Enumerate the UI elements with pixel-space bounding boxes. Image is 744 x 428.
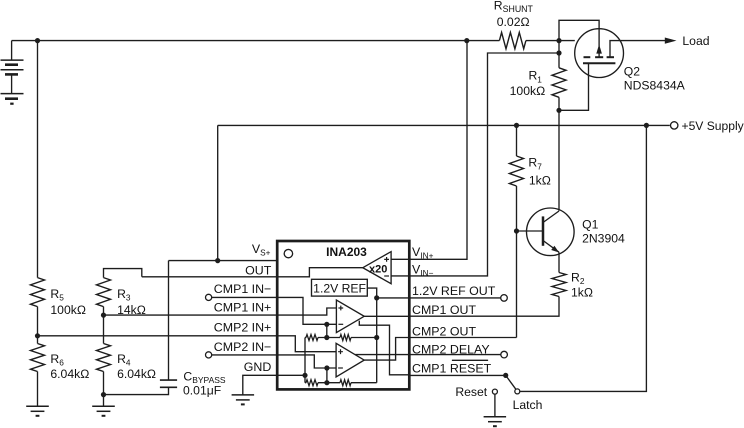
svg-text:CMP2 IN−: CMP2 IN− xyxy=(214,340,272,354)
transistor Q1 emitter xyxy=(543,241,559,253)
ground GND pin xyxy=(232,394,255,396)
wire latch to +5V xyxy=(520,125,647,391)
wire 1.2V REF OUT pin xyxy=(377,297,501,299)
node CMP1 RESET junction xyxy=(503,373,508,378)
svg-text:6.04kΩ: 6.04kΩ xyxy=(50,367,89,381)
wire R7 top lead xyxy=(516,125,518,156)
comparator U1A minus xyxy=(338,323,343,325)
comparator U1B minus xyxy=(338,367,343,369)
node row1 right junction xyxy=(374,335,379,340)
svg-text:RSHUNT: RSHUNT xyxy=(494,0,534,14)
resistor R4 6.04k xyxy=(97,344,111,372)
svg-text:14kΩ: 14kΩ xyxy=(117,303,146,317)
svg-text:2N3904: 2N3904 xyxy=(582,232,625,246)
wire CBYPASS top leg xyxy=(168,261,170,381)
svg-text:6.04kΩ: 6.04kΩ xyxy=(117,367,156,381)
transistor Q1 base bar xyxy=(542,216,545,245)
svg-text:CMP2 IN+: CMP2 IN+ xyxy=(214,321,272,335)
resistor R5 100k xyxy=(31,278,45,307)
wire VIN+ sense xyxy=(409,41,467,260)
resistor R1 100k xyxy=(552,68,566,98)
svg-text:VIN−: VIN− xyxy=(412,262,434,278)
capacitor CBYPASS xyxy=(160,379,177,381)
comparator U1A plus xyxy=(338,306,343,311)
block 1.2V REF xyxy=(312,279,368,296)
battery V1 supply xyxy=(11,41,13,61)
svg-text:Latch: Latch xyxy=(513,398,543,412)
wire Q1 base lead xyxy=(517,230,544,232)
wire R2 bottom to CMP1 OUT xyxy=(409,297,559,317)
wire CMP2 IN+ pin xyxy=(38,335,278,337)
svg-text:NDS8434A: NDS8434A xyxy=(624,79,686,93)
op-amp U1 INA203 body xyxy=(277,241,409,389)
svg-text:Q1: Q1 xyxy=(582,218,598,232)
node R7 top junction xyxy=(514,123,519,128)
transistor Q2 source arrow xyxy=(596,44,602,53)
node R4 ground junction xyxy=(101,392,106,397)
ground R6 xyxy=(26,405,49,407)
node R3/R4 junction xyxy=(101,313,106,318)
wire row2 to CMP2 minus xyxy=(326,368,328,383)
node latch branch junction xyxy=(644,123,649,128)
wire top supply rail xyxy=(12,40,500,42)
node row2 mid junction xyxy=(324,380,329,385)
pin1 marker circle xyxy=(284,249,292,257)
svg-text:100kΩ: 100kΩ xyxy=(50,303,86,317)
terminal latch circle xyxy=(515,389,520,394)
resistor R6 6.04k xyxy=(31,344,45,372)
ground reset xyxy=(484,416,507,418)
node VIN- branch junction xyxy=(556,50,561,55)
wire Q2 gate lead xyxy=(559,63,589,110)
node GND tie junction xyxy=(302,373,307,378)
svg-text:1kΩ: 1kΩ xyxy=(529,174,551,188)
svg-text:+5V Supply: +5V Supply xyxy=(682,119,744,133)
wire R7 bottom lead xyxy=(516,186,518,338)
terminal CMP2 DELAY circle xyxy=(501,351,508,358)
terminal CMP1 IN- circle xyxy=(206,294,212,300)
svg-text:R6: R6 xyxy=(50,352,64,368)
node R5/R6 junction xyxy=(35,333,40,338)
wire R1 top xyxy=(558,41,560,68)
svg-text:1kΩ: 1kΩ xyxy=(571,286,593,300)
svg-text:INA203: INA203 xyxy=(326,245,367,259)
transistor Q2 body circle xyxy=(575,29,624,78)
wire Q2 source jog xyxy=(559,20,599,46)
node battery/R5 junction xyxy=(35,38,40,43)
switch lever xyxy=(506,375,516,389)
ground R4 xyxy=(92,405,115,407)
node CMP2 minus junction xyxy=(324,365,329,370)
resistor hysteresis 2a xyxy=(306,380,318,386)
wire CMP1 IN- route xyxy=(277,297,336,324)
node REF OUT junction xyxy=(374,295,379,300)
resistor hysteresis 1a xyxy=(306,335,318,341)
svg-text:R4: R4 xyxy=(117,352,131,368)
wire reset to ground xyxy=(494,394,496,417)
overline RESET xyxy=(452,359,488,361)
amp x20 minus xyxy=(384,275,389,277)
transistor Q2 channel dashes xyxy=(584,56,591,58)
resistor R3 14k xyxy=(97,278,111,307)
comparator U1B plus xyxy=(338,349,343,354)
wire R3 bottom xyxy=(103,307,105,316)
terminal +5V supply circle xyxy=(671,122,678,129)
svg-text:100kΩ: 100kΩ xyxy=(510,84,546,98)
wire CMP2 OUT route xyxy=(364,338,516,361)
wire VIN- sense xyxy=(409,53,559,276)
node RSHUNT left junction xyxy=(464,38,469,43)
transistor Q1 collector xyxy=(543,211,559,223)
wire R5 bottom xyxy=(37,307,39,336)
svg-text:GND: GND xyxy=(244,360,272,374)
wire R4 ground lead xyxy=(103,395,105,407)
node row1 mid junction xyxy=(324,335,329,340)
wire CBYPASS bottom xyxy=(104,387,169,394)
node Q1 base junction xyxy=(514,228,519,233)
wire VS+ pin xyxy=(169,260,278,262)
svg-text:R2: R2 xyxy=(571,271,585,287)
wire x20 out to OUT pin xyxy=(142,268,363,277)
svg-text:CMP1 IN+: CMP1 IN+ xyxy=(214,300,272,314)
wire R6 bottom xyxy=(37,372,39,407)
svg-text:CMP2 OUT: CMP2 OUT xyxy=(412,325,476,339)
svg-text:R3: R3 xyxy=(117,287,131,303)
wire REF vertical to rows xyxy=(376,298,378,383)
wire row1 to CMP1 minus xyxy=(326,324,328,337)
svg-text:CMP1 RESET: CMP1 RESET xyxy=(412,361,492,375)
svg-text:CMP1 OUT: CMP1 OUT xyxy=(412,303,476,317)
svg-text:R7: R7 xyxy=(528,156,542,172)
resistor hysteresis 2b xyxy=(340,380,351,386)
wire rows left tie xyxy=(304,338,306,383)
wire CMP2 IN- pin stub xyxy=(212,354,278,356)
wire row1 xyxy=(305,337,306,339)
wire row2 xyxy=(305,382,306,384)
svg-text:CBYPASS: CBYPASS xyxy=(183,369,226,385)
wire OUT jog to R3 xyxy=(104,269,142,278)
resistor R2 1k xyxy=(552,273,566,297)
svg-text:CMP1 IN−: CMP1 IN− xyxy=(214,282,272,296)
resistor RSHUNT 0.02ohm xyxy=(499,32,526,48)
svg-text:Q2: Q2 xyxy=(624,64,640,78)
svg-text:1.2V REF OUT: 1.2V REF OUT xyxy=(412,284,496,298)
resistor hysteresis 1b xyxy=(340,335,351,341)
svg-text:x20: x20 xyxy=(369,264,387,276)
wire GND pin route xyxy=(243,375,305,395)
amp x20 triangle xyxy=(363,252,391,284)
node CMP1 minus junction xyxy=(324,322,329,327)
node RSHUNT right junction xyxy=(556,38,561,43)
svg-text:OUT: OUT xyxy=(245,264,272,278)
svg-text:R1: R1 xyxy=(528,69,542,85)
amp x20 plus xyxy=(384,257,389,262)
wire CMP1 RESET pin xyxy=(409,374,505,376)
svg-text:Reset: Reset xyxy=(455,385,487,399)
svg-text:Load: Load xyxy=(682,34,709,48)
svg-text:0.02Ω: 0.02Ω xyxy=(497,15,530,29)
wire VS+ drop from +5V xyxy=(217,125,219,260)
wire REF to REF OUT xyxy=(367,288,376,298)
wire CMP2 DELAY route xyxy=(355,354,501,356)
svg-text:R5: R5 xyxy=(50,287,64,303)
wire CMP1 IN+ pin xyxy=(104,314,278,316)
wire R4 top xyxy=(103,315,105,343)
wire x20 inputs xyxy=(391,258,409,260)
wire Q1 emitter to R2 xyxy=(558,252,560,272)
node VS+ junction xyxy=(215,258,220,263)
svg-text:1.2V REF: 1.2V REF xyxy=(313,282,366,296)
terminal reset circle xyxy=(492,389,497,394)
svg-text:VS+: VS+ xyxy=(252,242,271,258)
wire R1 bottom to Q1 collector xyxy=(558,97,560,211)
terminal CMP2 IN- circle xyxy=(206,352,212,358)
wire CMP1 IN+ route xyxy=(277,308,336,315)
wire Q2 drain to load xyxy=(610,41,666,58)
comparator U1B triangle xyxy=(336,343,364,377)
wire R6 top xyxy=(37,336,39,344)
comparator U1A triangle xyxy=(336,300,364,333)
load arrow xyxy=(665,38,677,44)
wire CMP1 RESET route xyxy=(359,321,409,375)
svg-text:VIN+: VIN+ xyxy=(412,245,434,261)
wire R4 bottom xyxy=(103,372,105,395)
transistor Q1 body circle xyxy=(527,208,575,256)
wire CMP2 IN- route xyxy=(277,355,336,368)
wire +5V supply rail xyxy=(218,124,670,126)
resistor R7 1k xyxy=(510,156,524,186)
terminal 1.2V REF OUT circle xyxy=(501,295,508,302)
wire R5 top feed xyxy=(37,41,39,278)
wire CMP2 IN+ route xyxy=(277,336,336,352)
node R1 bottom gate junction xyxy=(556,108,561,113)
wire CMP1 IN- pin stub xyxy=(212,296,278,298)
svg-text:0.01μF: 0.01μF xyxy=(183,384,221,398)
transistor Q2 gate plate xyxy=(583,62,615,64)
wire CMP1 OUT interior xyxy=(364,315,409,317)
